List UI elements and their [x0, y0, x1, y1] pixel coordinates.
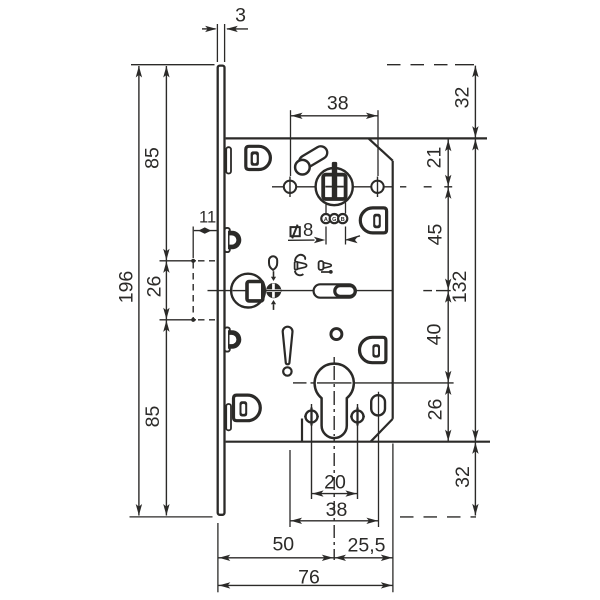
latch loop lower tab: [225, 327, 230, 351]
handle follower circle: [316, 168, 353, 205]
dim 76 line: [218, 584, 393, 586]
ext line 85/26 boundary top: [160, 260, 197, 262]
right-top D cutout: [360, 208, 386, 233]
svg-text:20: 20: [324, 471, 346, 493]
svg-text:85: 85: [142, 147, 164, 169]
svg-text:45: 45: [425, 224, 447, 246]
ext line 26/85 boundary bottom: [160, 319, 197, 321]
dim 11 line + diamond: [194, 230, 217, 232]
svg-text:G: G: [332, 217, 336, 223]
svg-text:21: 21: [424, 147, 446, 169]
svg-text:25,5: 25,5: [348, 534, 386, 556]
ext line body right bottom: [392, 444, 394, 593]
body bottom edge + right extension: [226, 441, 490, 443]
glyph funnel: [319, 261, 324, 270]
square symbol: [291, 227, 300, 236]
phillips screw: [273, 271, 275, 277]
AGB logo: [321, 214, 330, 223]
svg-text:A: A: [324, 217, 328, 223]
body top edge + right extension: [226, 137, 487, 139]
euro cylinder: [315, 364, 354, 438]
right-mid D cutout: [360, 337, 386, 362]
svg-text:196: 196: [115, 271, 137, 304]
glyph capsule: [269, 256, 277, 270]
dim 25,5 line: [334, 557, 393, 559]
svg-text:11: 11: [199, 208, 216, 226]
faceplate fixing tab bottom: [226, 404, 231, 430]
body top-right chamfer: [369, 138, 393, 160]
dim 85/26/85 line: [165, 66, 167, 516]
left screw hole: [284, 181, 296, 193]
dim chain 32/132/32 line: [474, 66, 476, 516]
dashed strike line vertical: [192, 262, 194, 318]
follower square hole: [323, 175, 345, 199]
handle centerline: [272, 186, 393, 188]
latch loop upper ring: [228, 231, 241, 250]
cylinder centerline: [293, 382, 307, 384]
faceplate fixing tab top: [226, 147, 231, 173]
body right edge: [392, 161, 394, 419]
dim 20 line: [312, 493, 358, 495]
follower spindle bar: [332, 162, 337, 199]
latch loop upper tab: [225, 228, 230, 252]
dashed line faceplate bottom right: [400, 516, 476, 518]
body bottom-right chamfer: [371, 419, 393, 442]
ext line faceplate top left: [131, 64, 215, 66]
dim 38 bottom line: [290, 520, 379, 522]
svg-text:8: 8: [303, 219, 313, 240]
ext line 38 left bottom: [289, 450, 291, 527]
svg-text:38: 38: [327, 92, 349, 114]
svg-text:50: 50: [272, 534, 294, 556]
latch slot inner bolt: [335, 286, 355, 297]
dashed strike dots: [191, 259, 195, 263]
dim 8 arrows: [288, 239, 315, 241]
dim 38 top extension lines: [290, 110, 292, 176]
dim 3 extension lines: [216, 24, 218, 62]
svg-text:38: 38: [326, 499, 348, 521]
svg-text:132: 132: [449, 271, 471, 304]
latch slot outer: [314, 284, 356, 297]
dim 11 extension line: [192, 227, 194, 259]
latch loop lower ring: [228, 330, 241, 349]
svg-text:B: B: [341, 217, 345, 223]
cylinder vertical centerline: [333, 357, 335, 560]
svg-text:76: 76: [298, 567, 320, 589]
dim 38 top line: [291, 115, 379, 117]
dim 3 arrows: [202, 28, 216, 30]
ext line faceplate bottom: [217, 523, 219, 592]
latch centerline: [208, 290, 393, 292]
drop slot: [283, 327, 293, 365]
dashed line faceplate top right: [387, 64, 448, 66]
dim 50 line: [218, 557, 334, 559]
case edge segment: [301, 419, 303, 442]
drop slot dot: [283, 367, 291, 375]
bottom-left D cutout: [234, 395, 261, 421]
svg-text:3: 3: [235, 5, 246, 27]
latch hub circle: [231, 274, 265, 308]
svg-text:32: 32: [452, 87, 474, 109]
svg-text:40: 40: [424, 324, 446, 346]
dim 8 extension lines: [325, 203, 327, 214]
right screw hole: [371, 181, 383, 193]
svg-text:32: 32: [452, 466, 474, 488]
small bold hole: [331, 329, 342, 340]
svg-text:26: 26: [425, 399, 447, 421]
top-left D cutout: [246, 146, 271, 169]
dim chain 21/45/40/26 line: [447, 139, 449, 441]
oval cutout: [371, 395, 385, 415]
dim 196 line: [138, 66, 140, 516]
svg-text:85: 85: [142, 406, 164, 428]
ext line faceplate bottom left: [130, 516, 213, 518]
faceplate (3mm front plate): [218, 66, 225, 515]
angled slot top-left: [297, 144, 330, 171]
svg-text:26: 26: [144, 276, 166, 298]
cyl screw right: [357, 404, 359, 499]
cyl screw left: [311, 404, 313, 499]
glyph butterfly: [295, 255, 305, 261]
latch hub square: [247, 282, 263, 301]
